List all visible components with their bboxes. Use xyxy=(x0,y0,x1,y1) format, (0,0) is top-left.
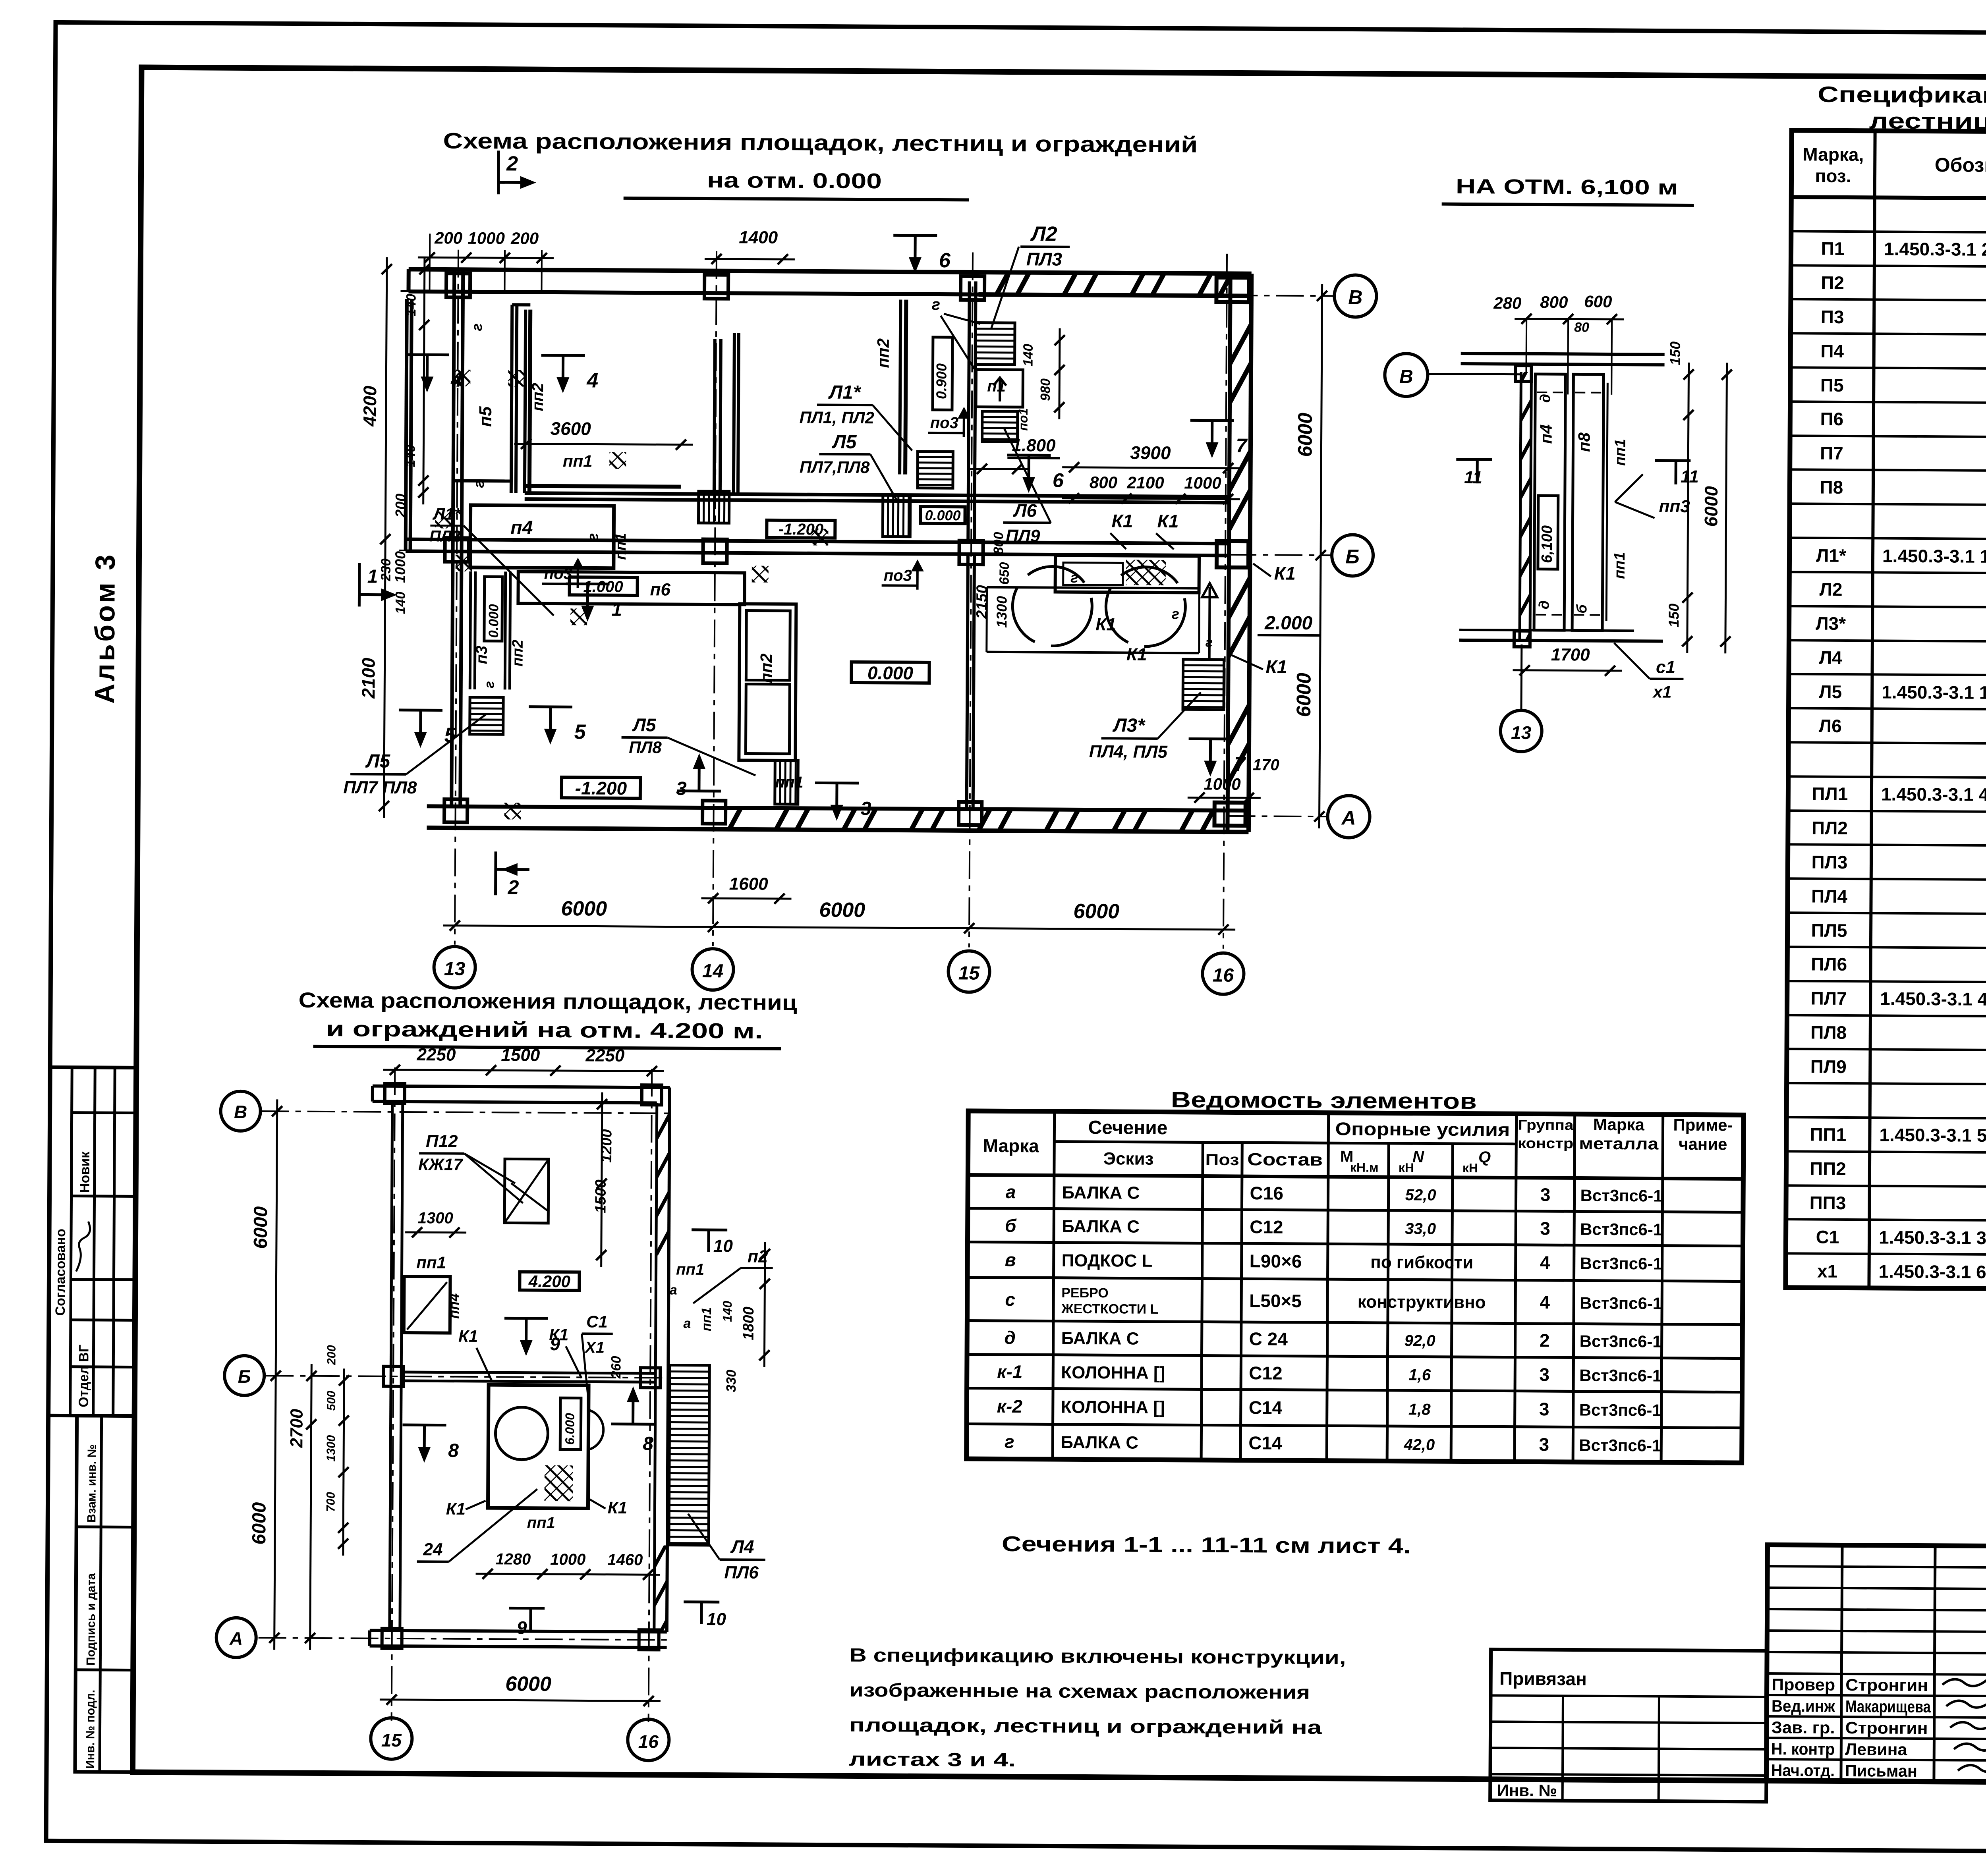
svg-text:Вед.инж: Вед.инж xyxy=(1772,1697,1835,1716)
leader labels Л5 ПЛ7ПЛ8 bottom-left xyxy=(343,714,486,798)
6.100 пп3 label xyxy=(1615,474,1690,518)
svg-text:8: 8 xyxy=(448,1440,459,1461)
svg-text:Вст3пс6-1: Вст3пс6-1 xyxy=(1580,1254,1662,1273)
svg-text:БАЛКА С: БАЛКА С xyxy=(1062,1217,1140,1237)
6.100 right dims xyxy=(1665,342,1732,654)
svg-text:г: г xyxy=(932,296,941,313)
right dim line and 6000s xyxy=(1292,284,1327,828)
svg-text:П5: П5 xyxy=(1820,375,1844,396)
svg-text:Л1*: Л1* xyxy=(1816,545,1846,566)
dims 3900 / 800 2100 1000 xyxy=(1062,442,1240,504)
svg-text:Ведомость элементов: Ведомость элементов xyxy=(1171,1087,1477,1114)
svg-text:9: 9 xyxy=(550,1334,560,1354)
svg-text:3: 3 xyxy=(1539,1364,1549,1385)
svg-text:г: г xyxy=(469,323,485,331)
svg-text:1.450.3-3.1 1.1.100 - 04: 1.450.3-3.1 1.1.100 - 04 xyxy=(1882,545,1986,567)
svg-text:Q: Q xyxy=(1478,1148,1491,1166)
svg-text:А: А xyxy=(1341,807,1356,829)
svg-text:10: 10 xyxy=(713,1236,733,1256)
svg-text:конструктивно: конструктивно xyxy=(1358,1292,1486,1312)
tank room xyxy=(987,555,1213,653)
svg-text:4: 4 xyxy=(586,369,598,392)
svg-text:б: б xyxy=(1573,604,1590,614)
svg-text:К1: К1 xyxy=(458,1327,478,1345)
dims near tank room xyxy=(974,532,1012,628)
svg-text:РЕБРО: РЕБРО xyxy=(1061,1285,1109,1301)
section flag 2 top xyxy=(498,151,537,194)
svg-text:13: 13 xyxy=(1511,722,1532,743)
axis lines horizontal xyxy=(398,291,1335,816)
svg-text:Инв. № подл.: Инв. № подл. xyxy=(84,1690,97,1769)
svg-text:Нач.отд.: Нач.отд. xyxy=(1771,1761,1835,1780)
svg-text:92,0: 92,0 xyxy=(1404,1332,1435,1349)
К1 labels upper xyxy=(1110,510,1178,549)
svg-text:пп1: пп1 xyxy=(563,452,593,470)
svg-text:К1: К1 xyxy=(1111,510,1133,531)
dims 170 1000 bottom right xyxy=(1188,756,1279,803)
svg-text:140: 140 xyxy=(403,445,418,467)
label П4 room xyxy=(429,504,614,616)
svg-text:К1: К1 xyxy=(446,1500,466,1518)
svg-text:1.450.3-3.1 6.1.0.1.0: 1.450.3-3.1 6.1.0.1.0 xyxy=(1878,1261,1986,1282)
svg-text:П8: П8 xyxy=(1820,477,1843,498)
4.200 grid bubble 16 xyxy=(628,1719,669,1761)
room labels upper-left xyxy=(466,323,893,791)
svg-text:ПЛ4, ПЛ5: ПЛ4, ПЛ5 xyxy=(1089,742,1168,762)
6.100 grid bubble 13 xyxy=(1500,644,1542,752)
svg-text:Альбом 3: Альбом 3 xyxy=(89,552,121,704)
svg-text:ПЛ5: ПЛ5 xyxy=(1811,920,1847,941)
svg-text:1000: 1000 xyxy=(1204,775,1241,793)
flags по3 xyxy=(542,405,970,590)
4.200 top dims xyxy=(383,1045,664,1077)
svg-text:ПЛ2: ПЛ2 xyxy=(429,527,461,545)
svg-text:Вст3пс6-1: Вст3пс6-1 xyxy=(1580,1220,1662,1239)
svg-text:11: 11 xyxy=(1464,468,1482,487)
svg-text:ПЛ8: ПЛ8 xyxy=(629,738,662,757)
svg-text:1.450.3-3.1 1.2.1.0.0 - 03: 1.450.3-3.1 1.2.1.0.0 - 03 xyxy=(1882,681,1986,703)
svg-text:ПЛ1, ПЛ2: ПЛ1, ПЛ2 xyxy=(800,408,874,427)
svg-text:д: д xyxy=(1004,1327,1016,1348)
section flag 6 top xyxy=(893,235,951,273)
section flag 2 bottom xyxy=(495,851,529,898)
svg-text:п1: п1 xyxy=(987,378,1006,395)
svg-text:К1: К1 xyxy=(1266,656,1287,677)
svg-text:4200: 4200 xyxy=(359,386,381,427)
4.200 left dims xyxy=(248,1099,351,1650)
svg-text:0.000: 0.000 xyxy=(925,507,960,523)
svg-text:кН.м: кН.м xyxy=(1350,1160,1379,1174)
svg-text:Б: Б xyxy=(238,1366,251,1387)
svg-text:L50×5: L50×5 xyxy=(1249,1290,1302,1311)
svg-text:1: 1 xyxy=(611,599,622,620)
svg-text:Поз: Поз xyxy=(1205,1151,1239,1169)
equipment block пп2 lower xyxy=(739,604,796,760)
svg-text:Макарищева: Макарищева xyxy=(1845,1697,1931,1716)
svg-text:Вст3пс6-1: Вст3пс6-1 xyxy=(1579,1401,1661,1420)
svg-text:1.800: 1.800 xyxy=(1012,436,1056,455)
right exterior wall xyxy=(1227,274,1251,832)
svg-text:Письман: Письман xyxy=(1845,1761,1917,1780)
svg-text:площадок, лестниц и огражде: площадок, лестниц и ограждений на xyxy=(849,1715,1322,1738)
svg-text:пп1: пп1 xyxy=(699,1307,714,1332)
svg-text:В спецификацию включены ко: В спецификацию включены конструкции, xyxy=(849,1645,1346,1669)
svg-text:ПЛ7: ПЛ7 xyxy=(1811,988,1847,1009)
svg-text:КОЛОННА []: КОЛОННА [] xyxy=(1061,1397,1165,1417)
svg-text:К1: К1 xyxy=(1126,645,1147,664)
svg-text:чание: чание xyxy=(1679,1135,1727,1154)
svg-text:Вст3пс6-1: Вст3пс6-1 xyxy=(1580,1186,1662,1205)
svg-text:г: г xyxy=(585,533,601,541)
svg-text:6000: 6000 xyxy=(1700,486,1721,527)
svg-text:ПЛ2: ПЛ2 xyxy=(1812,818,1848,838)
stair below П1 xyxy=(982,411,1018,442)
svg-text:п4: п4 xyxy=(510,517,533,538)
svg-text:170: 170 xyxy=(1253,756,1279,774)
svg-text:Л3*: Л3* xyxy=(1816,613,1846,634)
svg-text:С1: С1 xyxy=(1816,1227,1839,1247)
svg-text:по гибкости: по гибкости xyxy=(1370,1253,1473,1272)
svg-text:6.000: 6.000 xyxy=(562,1413,577,1445)
svg-text:С12: С12 xyxy=(1250,1216,1283,1237)
margin label Альбом 3 xyxy=(89,552,121,704)
svg-text:2: 2 xyxy=(1540,1330,1550,1351)
svg-text:пп3: пп3 xyxy=(1659,497,1690,516)
svg-text:980: 980 xyxy=(1038,378,1053,401)
junction break marks xyxy=(434,369,829,821)
svg-text:3600: 3600 xyxy=(550,418,591,439)
svg-text:Л1*: Л1* xyxy=(432,504,461,523)
4.200 grid bubble 15 xyxy=(371,1718,412,1760)
6.100 top beam xyxy=(1461,353,1665,365)
svg-text:пп1: пп1 xyxy=(775,774,803,791)
svg-text:Л4: Л4 xyxy=(730,1536,754,1557)
svg-text:4: 4 xyxy=(450,369,462,392)
sections note xyxy=(1002,1532,1411,1558)
svg-text:к-1: к-1 xyxy=(997,1361,1022,1382)
svg-text:констр: констр xyxy=(1518,1135,1573,1152)
column squares axis B row xyxy=(445,537,1248,568)
svg-text:200: 200 xyxy=(392,494,409,518)
svg-text:-1.200: -1.200 xyxy=(575,778,627,799)
svg-text:Схема расположения площадок,: Схема расположения площадок, лестниц и о… xyxy=(443,128,1198,157)
svg-text:г: г xyxy=(1172,606,1179,622)
svg-text:Опорные усилия: Опорные усилия xyxy=(1335,1118,1510,1140)
6.100 bottom beam xyxy=(1459,630,1663,641)
stair below equipment xyxy=(775,760,798,804)
lower-left: п3 room and stair xyxy=(470,571,510,735)
svg-text:поз.: поз. xyxy=(1815,166,1851,186)
svg-text:Л5: Л5 xyxy=(632,714,657,735)
svg-text:5: 5 xyxy=(574,720,586,743)
vedomost header xyxy=(983,1112,1733,1177)
svg-text:800: 800 xyxy=(1090,473,1117,492)
svg-text:200: 200 xyxy=(510,229,539,247)
svg-text:на отм. 0.000: на отм. 0.000 xyxy=(707,168,882,193)
svg-text:Схема расположения площадок,: Схема расположения площадок, лестниц xyxy=(298,988,797,1015)
svg-text:33,0: 33,0 xyxy=(1405,1220,1436,1237)
svg-text:п8: п8 xyxy=(1575,432,1593,452)
svg-text:БАЛКА С: БАЛКА С xyxy=(1061,1329,1139,1349)
svg-text:КЖ17: КЖ17 xyxy=(418,1155,463,1174)
6.100 level box xyxy=(1538,496,1558,569)
svg-text:ПП1: ПП1 xyxy=(1810,1124,1846,1145)
flag 7 upper xyxy=(1190,420,1248,458)
svg-text:2150: 2150 xyxy=(974,585,990,619)
svg-text:1.450.3-3.1 3.1.0.1.0-02: 1.450.3-3.1 3.1.0.1.0-02 xyxy=(1879,1227,1986,1249)
4.200 level box xyxy=(520,1272,579,1291)
svg-text:П2: П2 xyxy=(1821,272,1844,293)
svg-text:Л1*: Л1* xyxy=(828,382,862,403)
svg-text:16: 16 xyxy=(1213,965,1234,986)
svg-text:Сечение: Сечение xyxy=(1088,1117,1167,1139)
svg-text:пп4: пп4 xyxy=(446,1293,462,1319)
4.200 opening with cross xyxy=(418,1131,549,1223)
svg-text:П4: П4 xyxy=(1820,341,1844,361)
grid bubble 15 xyxy=(948,951,990,992)
svg-text:г: г xyxy=(1005,1431,1014,1452)
spec table title xyxy=(1818,82,1986,137)
svg-text:Л2: Л2 xyxy=(1030,222,1057,245)
svg-text:2: 2 xyxy=(506,152,518,175)
svg-text:пп1: пп1 xyxy=(527,1514,555,1532)
svg-text:2100: 2100 xyxy=(358,658,379,699)
svg-text:1000: 1000 xyxy=(392,551,408,583)
svg-text:Инв. №: Инв. № xyxy=(1497,1781,1557,1800)
svg-text:Провер: Провер xyxy=(1772,1675,1835,1694)
svg-text:Л5: Л5 xyxy=(1819,681,1842,702)
svg-text:П7: П7 xyxy=(1820,443,1843,463)
svg-text:БАЛКА С: БАЛКА С xyxy=(1062,1183,1140,1203)
svg-text:Л3*: Л3* xyxy=(1112,715,1146,736)
svg-text:кН: кН xyxy=(1462,1161,1478,1175)
svg-text:4: 4 xyxy=(1540,1252,1550,1273)
svg-text:Стронгин: Стронгин xyxy=(1845,1675,1928,1695)
svg-text:15: 15 xyxy=(381,1730,402,1751)
svg-text:пп1: пп1 xyxy=(416,1253,446,1272)
svg-text:14: 14 xyxy=(702,961,724,982)
bottom dim row xyxy=(443,873,1236,935)
svg-text:с: с xyxy=(1005,1289,1015,1310)
svg-text:ПЛ8: ПЛ8 xyxy=(1810,1022,1847,1043)
dims 140 980 near П1 xyxy=(1016,328,1065,431)
svg-text:6000: 6000 xyxy=(819,898,865,922)
svg-text:кН: кН xyxy=(1399,1160,1414,1175)
svg-text:Новик: Новик xyxy=(77,1151,93,1193)
svg-text:пп2: пп2 xyxy=(874,338,893,368)
svg-text:В: В xyxy=(234,1102,247,1122)
6.100 grid bubble В xyxy=(1385,353,1521,397)
svg-text:3: 3 xyxy=(861,798,871,819)
svg-text:42,0: 42,0 xyxy=(1403,1436,1435,1453)
margin stamp Взам.инв / Подпись / Инв.подл xyxy=(75,1416,135,1772)
svg-text:ПЛ7 ПЛ8: ПЛ7 ПЛ8 xyxy=(343,778,417,797)
svg-text:1300: 1300 xyxy=(418,1209,453,1227)
svg-text:Привязан: Привязан xyxy=(1499,1668,1587,1689)
dim 3600 xyxy=(514,418,693,450)
svg-text:Подпись и дата: Подпись и дата xyxy=(84,1573,98,1666)
svg-text:а: а xyxy=(683,1316,691,1331)
svg-text:24: 24 xyxy=(423,1540,442,1559)
svg-text:1460: 1460 xyxy=(607,1551,643,1569)
svg-text:1280: 1280 xyxy=(495,1550,531,1568)
svg-text:пп2: пп2 xyxy=(529,383,547,411)
4.200 column squares xyxy=(382,1084,662,1650)
svg-text:3: 3 xyxy=(1540,1218,1550,1239)
svg-text:С 24: С 24 xyxy=(1249,1328,1288,1349)
svg-text:4.200: 4.200 xyxy=(528,1272,570,1291)
svg-text:600: 600 xyxy=(1584,292,1612,311)
main plan title xyxy=(443,128,1198,201)
svg-text:по3: по3 xyxy=(884,567,912,584)
svg-text:1500: 1500 xyxy=(501,1045,540,1065)
svg-text:800: 800 xyxy=(1540,293,1568,311)
svg-text:Вст3пс6-1: Вст3пс6-1 xyxy=(1580,1332,1662,1351)
svg-text:500: 500 xyxy=(325,1391,338,1411)
labels Л2 ПЛ3 xyxy=(991,222,1070,328)
svg-text:г: г xyxy=(482,681,497,688)
svg-text:6000: 6000 xyxy=(1292,673,1315,717)
section flags 4 xyxy=(405,355,598,394)
svg-text:Сечения 1-1 ... 11-11 см: Сечения 1-1 ... 11-11 см лист 4. xyxy=(1002,1532,1411,1558)
svg-text:150: 150 xyxy=(1667,342,1683,365)
column squares bottom xyxy=(444,799,1245,827)
svg-text:6000: 6000 xyxy=(1073,900,1119,923)
svg-text:0.000: 0.000 xyxy=(486,604,501,638)
svg-text:С14: С14 xyxy=(1248,1432,1282,1453)
svg-text:Вст3пс6-1: Вст3пс6-1 xyxy=(1579,1366,1661,1385)
svg-text:1300: 1300 xyxy=(993,596,1010,628)
axis B interior wall xyxy=(407,539,1229,556)
svg-text:г: г xyxy=(1070,569,1078,586)
svg-text:к-2: к-2 xyxy=(997,1396,1023,1417)
svg-text:п6: п6 xyxy=(650,580,670,599)
svg-text:К1: К1 xyxy=(1095,615,1116,634)
svg-text:К1: К1 xyxy=(1157,511,1178,531)
svg-text:ПП2: ПП2 xyxy=(1810,1158,1846,1179)
svg-text:140: 140 xyxy=(720,1301,734,1322)
svg-text:0.900: 0.900 xyxy=(933,363,949,399)
svg-text:Х1: Х1 xyxy=(584,1339,605,1356)
grid bubble Б main xyxy=(1332,535,1374,576)
svg-text:3900: 3900 xyxy=(1130,442,1171,463)
svg-text:Стронгин: Стронгин xyxy=(1845,1718,1928,1737)
svg-text:6000: 6000 xyxy=(249,1502,270,1544)
4.200 пп1 bottom label xyxy=(527,1514,555,1532)
svg-text:200: 200 xyxy=(325,1345,338,1366)
svg-text:Н. контр: Н. контр xyxy=(1771,1739,1835,1758)
svg-text:1000: 1000 xyxy=(1184,473,1221,492)
svg-text:Обозначение: Обозначение xyxy=(1935,154,1986,177)
svg-text:Левина: Левина xyxy=(1845,1740,1907,1759)
vertical level box 0.900 xyxy=(933,337,952,410)
grid bubble А main xyxy=(1327,795,1370,838)
4.200 walls xyxy=(370,1086,670,1648)
svg-text:1: 1 xyxy=(367,566,378,587)
svg-text:1.000: 1.000 xyxy=(583,578,623,596)
svg-text:Вст3пс6-1: Вст3пс6-1 xyxy=(1580,1294,1662,1313)
margin stamp Согласовано xyxy=(48,1067,137,1416)
svg-text:ПЛ3: ПЛ3 xyxy=(1811,852,1847,872)
svg-text:П6: П6 xyxy=(1820,409,1843,429)
4.200 stair Л4 xyxy=(669,1365,709,1546)
spec table rows xyxy=(1809,203,1986,1291)
svg-text:1.450.3-3.1 2.1.1.0.0 - 01: 1.450.3-3.1 2.1.1.0.0 - 01 xyxy=(1884,238,1986,260)
svg-text:Л5: Л5 xyxy=(365,751,390,772)
svg-text:Л6: Л6 xyxy=(1013,500,1037,521)
svg-text:7: 7 xyxy=(1236,434,1248,457)
specification note xyxy=(849,1645,1346,1773)
grid bubble 16 xyxy=(1202,953,1244,995)
svg-text:а: а xyxy=(670,1283,677,1298)
svg-text:Л5: Л5 xyxy=(832,432,857,453)
svg-text:0.000: 0.000 xyxy=(867,662,914,683)
6.100 panel П4 xyxy=(1534,374,1565,630)
svg-text:д: д xyxy=(1537,394,1553,403)
bottom exterior wall xyxy=(427,806,1248,832)
dim 1.800 xyxy=(970,435,1060,474)
4.200 plan title xyxy=(298,988,797,1049)
svg-text:3: 3 xyxy=(676,778,687,799)
stair mid (по3) xyxy=(918,452,953,488)
grid bubble В main xyxy=(1334,275,1377,317)
top dims 200 1000 200 xyxy=(417,228,554,292)
svg-text:Приме-: Приме- xyxy=(1673,1116,1733,1135)
svg-text:330: 330 xyxy=(724,1370,739,1392)
svg-text:9: 9 xyxy=(517,1617,527,1638)
svg-text:х1: х1 xyxy=(1817,1261,1837,1282)
svg-text:1.450.3-3.1 4.1.1.1.0 -: 1.450.3-3.1 4.1.1.1.0 - xyxy=(1881,784,1986,805)
svg-text:6000: 6000 xyxy=(561,897,607,921)
radiator stair Л1* at grid14 xyxy=(698,491,729,523)
Л3* ПЛ4,ПЛ5 labels xyxy=(1089,692,1201,762)
svg-text:и ограждений на отм. 4.20: и ограждений на отм. 4.200 м. xyxy=(326,1017,763,1043)
svg-text:П12: П12 xyxy=(426,1131,458,1151)
svg-text:6,100: 6,100 xyxy=(1539,525,1555,563)
svg-text:1,8: 1,8 xyxy=(1408,1401,1431,1418)
svg-text:С1: С1 xyxy=(586,1312,608,1331)
left walls xyxy=(404,269,463,807)
svg-text:НА ОТМ. 6,100 м: НА ОТМ. 6,100 м xyxy=(1456,175,1678,199)
4.200 Л4 ПЛ6 labels xyxy=(688,1514,765,1583)
left dim column xyxy=(357,257,430,818)
svg-text:1200: 1200 xyxy=(598,1129,615,1163)
svg-text:1600: 1600 xyxy=(729,874,769,894)
svg-text:1700: 1700 xyxy=(1551,645,1590,665)
title block: privyazan box xyxy=(1490,1649,1767,1802)
svg-text:ПЛ4: ПЛ4 xyxy=(1811,886,1848,907)
svg-text:В: В xyxy=(1399,366,1413,387)
4.200 central platform xyxy=(488,1385,603,1509)
svg-text:52,0: 52,0 xyxy=(1405,1186,1436,1204)
svg-text:ПЛ9: ПЛ9 xyxy=(1810,1056,1847,1077)
svg-text:-1.200: -1.200 xyxy=(779,521,824,538)
svg-text:1300: 1300 xyxy=(325,1435,338,1461)
6.100 с1 х1 labels xyxy=(1614,643,1684,701)
svg-text:ПЛ3: ПЛ3 xyxy=(1026,249,1063,269)
interior walls upper-left block xyxy=(452,279,1231,811)
svg-text:2.000: 2.000 xyxy=(1264,612,1313,634)
svg-text:80: 80 xyxy=(1574,320,1589,335)
svg-text:7: 7 xyxy=(1234,753,1246,775)
svg-text:п3: п3 xyxy=(473,646,491,664)
svg-text:Марка,: Марка, xyxy=(1802,144,1864,165)
svg-text:по1: по1 xyxy=(1016,408,1030,431)
svg-text:11: 11 xyxy=(1681,467,1699,486)
4.200 С1 Х1 labels xyxy=(582,1312,613,1410)
2.000 label xyxy=(1258,612,1319,635)
svg-text:15: 15 xyxy=(958,963,980,984)
